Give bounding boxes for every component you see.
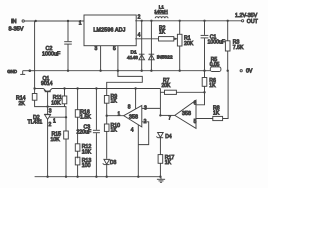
resistor R7 xyxy=(160,90,204,94)
node bottom D3 xyxy=(106,176,108,178)
svg-text:4: 4 xyxy=(131,128,134,134)
node C1 top xyxy=(203,20,205,22)
wire pin4 feedback xyxy=(135,38,158,40)
node pin8 xyxy=(134,87,136,89)
svg-text:1K: 1K xyxy=(111,99,118,105)
resistor R17 xyxy=(158,155,163,177)
node bottom C3 xyxy=(95,176,97,178)
node input junction xyxy=(35,20,37,22)
svg-text:1K: 1K xyxy=(159,29,166,35)
svg-text:1.5K: 1.5K xyxy=(80,115,91,121)
wire output top xyxy=(135,20,241,22)
node base junction xyxy=(46,105,48,107)
node opB out xyxy=(159,114,161,116)
svg-text:10K: 10K xyxy=(51,137,61,143)
svg-text:OUT: OUT xyxy=(247,19,259,25)
svg-text:220uF: 220uF xyxy=(77,130,92,136)
wire R2 to R1 wiper arrow xyxy=(174,37,178,40)
node opA out xyxy=(106,115,108,117)
node R3 bottom xyxy=(227,70,229,72)
node Q1 left xyxy=(33,87,35,89)
wire pin3 stub xyxy=(142,107,161,109)
svg-text:IN: IN xyxy=(11,19,17,25)
capacitor C1 xyxy=(201,21,209,71)
svg-text:1K: 1K xyxy=(209,83,216,89)
wire pin4 riser xyxy=(137,125,139,177)
node rail pin5 xyxy=(117,70,119,72)
svg-text:LM2596 ADJ: LM2596 ADJ xyxy=(93,27,125,33)
node R1 bottom xyxy=(179,70,181,72)
inductor L1 xyxy=(155,14,168,18)
wire sense staircase xyxy=(107,71,143,96)
svg-text:5: 5 xyxy=(194,119,197,125)
node bottom R13 xyxy=(76,176,78,178)
wire opB out riser xyxy=(159,89,161,116)
svg-text:7.5K: 7.5K xyxy=(233,45,244,51)
node R1 top xyxy=(179,20,181,22)
wire input top xyxy=(25,20,84,22)
node D1 top xyxy=(141,20,143,22)
terminal 0V xyxy=(240,70,242,72)
svg-text:3: 3 xyxy=(95,46,98,52)
wire pin6 to R6 xyxy=(196,86,205,105)
capacitor C2 xyxy=(64,21,72,71)
resistor R9 xyxy=(104,96,109,125)
svg-text:20K: 20K xyxy=(162,83,172,89)
ground xyxy=(157,177,165,183)
node R3 top xyxy=(227,20,229,22)
svg-text:1: 1 xyxy=(79,21,82,27)
svg-text:10K: 10K xyxy=(51,100,61,106)
svg-text:4: 4 xyxy=(138,32,141,38)
svg-text:IN5822: IN5822 xyxy=(157,55,173,61)
node R7 right xyxy=(203,91,205,93)
node bottom pin4 xyxy=(137,176,139,178)
terminal OUT xyxy=(242,20,244,22)
svg-text:4148: 4148 xyxy=(127,55,138,61)
svg-text:140uH: 140uH xyxy=(154,9,168,14)
svg-text:1K: 1K xyxy=(213,110,220,116)
resistor R8 xyxy=(213,71,228,121)
resistor R5 shunt xyxy=(210,67,221,72)
svg-text:1K: 1K xyxy=(111,128,118,134)
shunt ref D2 TL431 xyxy=(44,107,66,177)
svg-text:100: 100 xyxy=(82,163,91,169)
svg-text:1: 1 xyxy=(53,119,56,125)
wire opB output xyxy=(160,114,174,116)
resistor R14 xyxy=(32,94,47,107)
svg-text:0.05: 0.05 xyxy=(210,62,220,68)
svg-text:2: 2 xyxy=(49,122,52,128)
wire opA output xyxy=(107,115,124,117)
svg-text:D1: D1 xyxy=(131,50,138,56)
svg-text:2: 2 xyxy=(138,15,141,21)
resistor R12 xyxy=(75,144,80,159)
node GND junction xyxy=(29,69,32,72)
svg-text:9014: 9014 xyxy=(41,81,53,87)
node D5 top xyxy=(150,20,152,22)
svg-text:D3: D3 xyxy=(110,160,117,166)
ground rail xyxy=(35,70,211,72)
resistor R3 xyxy=(225,21,230,71)
node rail pin3 xyxy=(99,70,101,72)
wire emitter rail to opB riser xyxy=(52,88,160,90)
wire pin5 to R8 xyxy=(196,118,213,120)
svg-text:GND: GND xyxy=(7,69,17,74)
svg-text:7: 7 xyxy=(168,115,171,121)
wire pin5 to ground rail xyxy=(117,46,119,71)
op-amp U2B 358 xyxy=(175,100,196,128)
node bottom R17 xyxy=(159,176,161,178)
node C1 bottom xyxy=(203,70,205,72)
node R11 top xyxy=(63,87,65,89)
svg-text:6: 6 xyxy=(194,101,197,107)
svg-text:20K: 20K xyxy=(184,41,194,47)
wire pin3 to ground rail xyxy=(100,46,102,71)
svg-text:3: 3 xyxy=(49,109,52,115)
terminal IN xyxy=(22,20,24,22)
node D5 bottom xyxy=(150,70,152,72)
node bottom R15 xyxy=(65,176,67,178)
zener D3 xyxy=(103,159,110,176)
node R16 top xyxy=(76,87,78,89)
svg-text:10K: 10K xyxy=(82,150,92,156)
svg-text:8-35V: 8-35V xyxy=(9,27,24,33)
op IC U1 LM2596 box xyxy=(84,15,136,46)
terminal GND xyxy=(20,71,34,75)
diode D1 4148 xyxy=(139,21,145,71)
node bottom TL431 xyxy=(46,176,48,178)
wire pin2 hook xyxy=(138,122,148,145)
capacitor C3 xyxy=(93,89,100,177)
svg-text:5: 5 xyxy=(113,46,116,52)
svg-text:1000uF: 1000uF xyxy=(208,40,226,46)
diode D5 IN5822 xyxy=(149,21,155,71)
resistor R11 xyxy=(62,89,67,107)
bottom rail xyxy=(35,176,162,178)
zener D4 xyxy=(156,133,163,155)
resistor R10 xyxy=(104,124,109,159)
resistor R16 xyxy=(75,89,80,144)
node rail C2 xyxy=(67,70,69,72)
node C3 top xyxy=(95,87,97,89)
node D1 bottom xyxy=(141,70,143,72)
svg-text:8: 8 xyxy=(128,104,131,110)
op-amp U2A 358 xyxy=(124,105,142,127)
svg-text:1000uF: 1000uF xyxy=(42,51,61,57)
resistor R1 potentiometer xyxy=(177,21,182,71)
svg-text:2K: 2K xyxy=(19,101,26,107)
wire base node xyxy=(48,107,66,118)
svg-text:D4: D4 xyxy=(165,134,172,140)
svg-text:358: 358 xyxy=(129,115,138,121)
wire left main vertical xyxy=(34,21,36,94)
svg-text:1: 1 xyxy=(118,111,121,117)
svg-text:1K: 1K xyxy=(165,160,172,166)
svg-text:0V: 0V xyxy=(246,69,253,75)
wire pin8 riser xyxy=(135,89,137,109)
svg-text:TL431: TL431 xyxy=(28,120,43,126)
resistor R6 xyxy=(202,71,207,87)
resistor R15 xyxy=(64,117,69,177)
svg-text:358: 358 xyxy=(182,111,191,117)
transistor Q1 9014 xyxy=(35,89,52,107)
node C2 top xyxy=(67,20,69,22)
resistor R2 xyxy=(159,37,174,41)
resistor R13 xyxy=(75,157,80,177)
node ref junction xyxy=(65,116,67,118)
